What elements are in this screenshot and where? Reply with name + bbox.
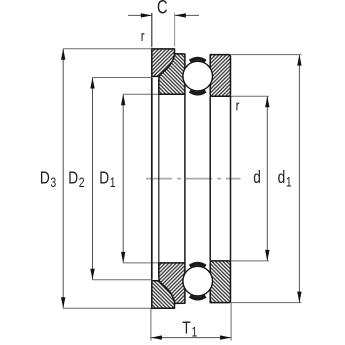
dimension T1 arrow right	[220, 335, 231, 339]
dimension D3 arrow down	[61, 297, 65, 308]
housing washer right face line across bore	[184, 94, 186, 263]
dimension D1 line	[122, 94, 124, 263]
ball bottom section	[183, 266, 213, 296]
dimension d top connector	[231, 95, 270, 97]
dimension D1 arrow down	[121, 252, 125, 263]
dimension C line right tail	[175, 14, 199, 16]
svg-text:r: r	[236, 97, 240, 114]
dimension d line	[266, 96, 268, 261]
dimension D3 top connector	[63, 48, 152, 50]
dimension D2 top connector	[93, 77, 152, 79]
dimension d1 top connector	[231, 54, 302, 56]
dimension D2 arrow up	[90, 78, 94, 89]
dimension d bottom connector	[231, 260, 270, 262]
dimension T1 line	[151, 337, 231, 339]
dimension D3 bottom connector	[63, 307, 152, 309]
dimension D3 arrow up	[61, 49, 65, 60]
dimension d1 bottom connector	[231, 302, 302, 304]
seating washer bottom section	[152, 281, 175, 309]
dimension T1 arrow left	[151, 335, 162, 339]
svg-text:C: C	[157, 0, 168, 18]
dimension T1 extension line left	[150, 308, 152, 340]
dimension d1 arrow up	[297, 55, 301, 66]
dimension T1 extension line right	[230, 303, 232, 341]
dimension d1 line	[298, 55, 300, 303]
housing washer top section (sphered back)	[159, 54, 185, 95]
cage bottom section lower band	[190, 296, 206, 299]
dimension C extension line left	[151, 13, 153, 47]
dimension D2 line	[92, 78, 94, 280]
cage bottom section upper band	[190, 264, 206, 267]
dimension C arrow right (points left)	[175, 13, 186, 17]
dimension C line left tail	[128, 14, 152, 16]
dimension d1 arrow down	[297, 292, 301, 303]
shaft washer top section	[210, 55, 230, 97]
dimension C arrow left (points right)	[141, 13, 152, 17]
shaft washer bottom section	[210, 261, 230, 303]
shaft washer left face line across bore	[209, 96, 211, 261]
dimension D2 bottom connector	[93, 279, 152, 281]
dimension D1 arrow up	[121, 94, 125, 105]
sphere silhouette line across bore	[158, 81, 160, 276]
svg-text:r: r	[141, 27, 145, 44]
ball top section	[183, 61, 213, 91]
housing washer bottom section (sphered back)	[159, 263, 185, 304]
dimension d arrow down	[265, 250, 269, 261]
seating washer top section	[152, 49, 175, 77]
dimension D1 bottom connector	[123, 262, 158, 264]
dimension d arrow up	[265, 96, 269, 107]
centerline (bearing axis, dash-dot)	[146, 178, 241, 180]
shaft washer right face line across bore	[230, 96, 232, 261]
seating washer left face line across bore	[151, 78, 153, 280]
cage top section lower band	[190, 91, 206, 94]
dimension D2 arrow down	[90, 269, 94, 280]
cage top section upper band	[190, 59, 206, 62]
svg-text:d: d	[253, 168, 261, 187]
dimension D3 line	[62, 49, 64, 308]
dimension C extension line right	[174, 13, 176, 47]
dimension D1 top connector	[123, 93, 158, 95]
